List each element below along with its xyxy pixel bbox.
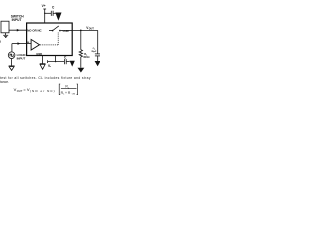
ground (GND pin, arrow style): [40, 64, 46, 69]
IC box U1: [27, 23, 73, 56]
svg-text:300Ω: 300Ω: [83, 55, 89, 59]
driver U1A (triangle): [31, 39, 39, 50]
ground (V+ bypass, solid triangle): [55, 13, 61, 21]
svg-text:tance.: tance.: [0, 80, 9, 84]
svg-text:(NO or NC): (NO or NC): [30, 89, 56, 93]
wire (logic source up and right to IN): [12, 44, 27, 52]
svg-text:GND: GND: [36, 52, 42, 56]
formula bracket right: [77, 84, 78, 95]
label VOUT: [86, 26, 94, 31]
label LOGIC INPUT: [17, 53, 27, 60]
svg-text:V-: V-: [48, 64, 51, 68]
svg-text:OUT: OUT: [17, 89, 23, 93]
wire (logic input into box): [27, 43, 32, 45]
svg-text:COM: COM: [63, 29, 69, 33]
formula fraction RL + RON: [61, 91, 76, 96]
svg-text:V+: V+: [42, 4, 46, 8]
formula bracket left: [59, 84, 60, 95]
resistor RL: [79, 50, 82, 57]
svg-text:NO OR NC: NO OR NC: [27, 29, 42, 33]
svg-text:35pF: 35pF: [91, 51, 97, 53]
formula VOUT equation: [14, 87, 56, 93]
ground (under logic source, arrow style): [9, 59, 15, 71]
wire (node down to RL): [80, 30, 82, 49]
ground (RL, solid triangle): [78, 68, 85, 73]
svg-text:INPUT: INPUT: [12, 18, 22, 22]
arrowhead on logic-input wire: [18, 42, 21, 45]
formula fraction RL: [65, 85, 70, 90]
wire (cap to ground, bottom): [66, 61, 70, 63]
node (output junction): [80, 30, 82, 32]
label SWITCH INPUT: [11, 15, 25, 22]
wire (CL to ground): [97, 56, 99, 61]
arrowhead on switch-input wire: [17, 29, 20, 32]
switch input source box V1: [1, 21, 9, 33]
ground (under source box V1): [3, 33, 8, 37]
wire (source box to NO/NC pin): [9, 29, 27, 31]
svg-text:test for all switches. CL incl: test for all switches. CL includes fixtu…: [0, 76, 91, 80]
ground (V- bypass, solid triangle): [70, 61, 75, 67]
capacitor C (V- bypass): [64, 59, 66, 64]
svg-text:+ R: + R: [65, 91, 71, 95]
wire (RL to ground): [80, 57, 82, 68]
wire (V- pin): [48, 56, 65, 64]
ground (CL, solid triangle): [95, 61, 101, 66]
wire (cap to ground, top): [53, 12, 57, 14]
label CL: [93, 48, 96, 51]
svg-text:INPUT: INPUT: [17, 56, 26, 60]
switch S1: [52, 26, 61, 32]
wire (V+ pin): [43, 9, 51, 23]
svg-text:OUT: OUT: [89, 29, 95, 31]
svg-text:ON: ON: [72, 94, 76, 96]
stray mark at left edge: [0, 41, 1, 43]
wire (COM to output node): [72, 29, 98, 31]
wire (GND pin): [42, 56, 44, 64]
label RL: [84, 52, 88, 57]
formula fraction bar: [61, 88, 77, 90]
wire (node down to CL): [97, 30, 99, 53]
wire (internal stub to switch left contact): [49, 29, 52, 31]
capacitor C (V+ bypass): [51, 11, 53, 16]
node (V+ / C junction): [44, 13, 45, 14]
logic input source G1 (pulse generator circle): [8, 52, 15, 59]
node (V- junction): [55, 61, 56, 62]
wire (switch right contact to COM pin): [61, 29, 72, 31]
dashed control line (driver to switch): [40, 32, 58, 45]
capacitor CL: [95, 54, 100, 56]
